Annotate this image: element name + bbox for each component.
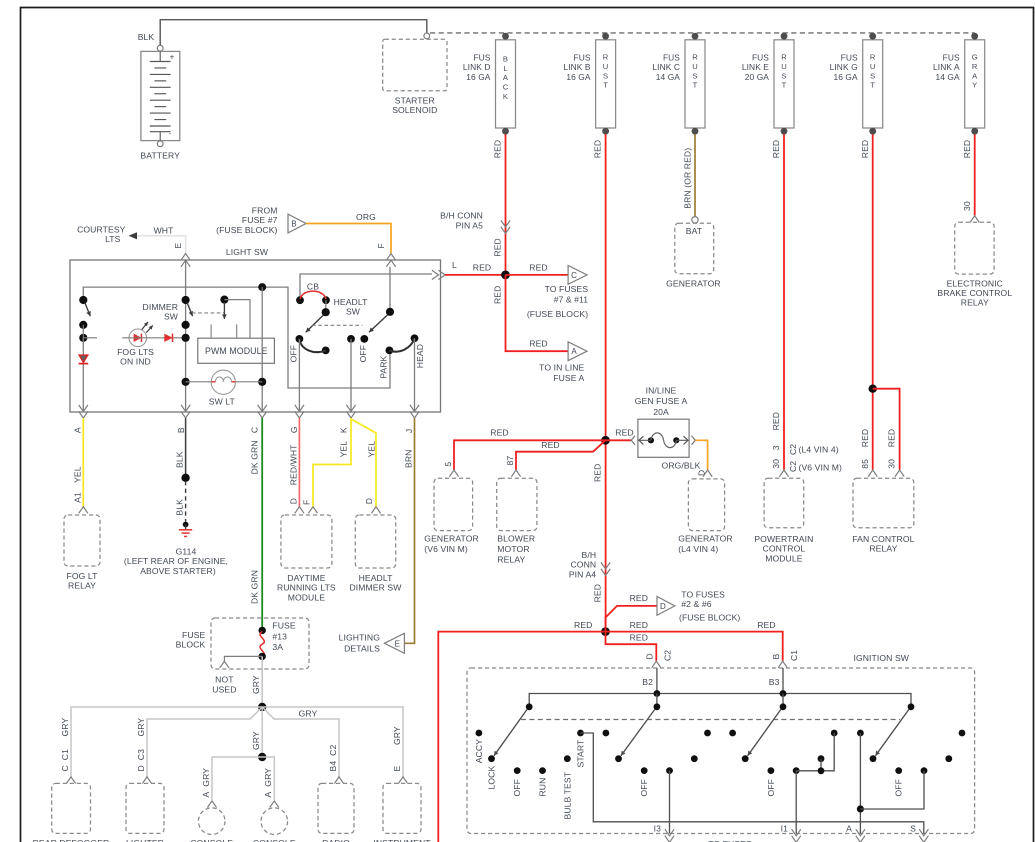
generator (L4 VIN 4) [703,470,712,477]
wire DK GRN to fuse block [261,418,263,630]
wire G column (OFF contact down) [298,339,300,412]
mechanical dashed link (rotary) [521,719,900,721]
blower motor relay [511,470,520,477]
svg-text:CONN: CONN [570,560,596,570]
svg-text:T: T [870,81,875,90]
wire to diode and A terminal [82,338,84,412]
ignition switch IGNITION SW box [467,668,975,834]
svg-text:3A: 3A [272,642,283,652]
wire RED from L to junction [445,274,506,276]
wire RED fuse link A to EBC relay [974,134,976,215]
svg-text:GENERATOR: GENERATOR [678,534,733,544]
svg-text:(FUSE BLOCK): (FUSE BLOCK) [527,309,588,319]
svg-text:B3: B3 [769,677,780,687]
wire GRY tier1 [71,707,403,777]
console lamp 2 [270,801,279,808]
svg-text:(L4 VIN 4): (L4 VIN 4) [678,544,718,554]
svg-text:A: A [972,71,978,80]
svg-text:14 GA: 14 GA [656,72,681,82]
console lamp 1 [207,801,216,808]
svg-text:BLK: BLK [175,451,185,468]
svg-text:RED: RED [962,140,972,158]
svg-text:PWM MODULE: PWM MODULE [205,346,268,356]
fan control relay [868,470,877,477]
svg-text:POWERTRAIN: POWERTRAIN [754,534,813,544]
wire RED to in-line fuse [606,439,632,441]
svg-text:L: L [503,64,507,73]
wire to NOT USED terminal [224,656,262,661]
headlt dimmer sw [371,507,380,514]
starter solenoid [383,39,447,90]
node GRY junction 2 [258,753,266,761]
svg-text:TO IN LINE: TO IN LINE [539,363,584,373]
svg-text:RED: RED [541,440,559,450]
node A branch [857,805,864,812]
svg-text:CONSOLE: CONSOLE [190,838,233,842]
wire RED to blower motor relay [516,440,606,470]
svg-text:S: S [910,824,916,834]
wire E/B column [185,260,187,412]
svg-text:E: E [392,766,402,772]
svg-text:A GRY: A GRY [263,768,273,798]
connector B/H CONN PIN A5 [501,220,510,227]
svg-text:IN/LINE: IN/LINE [646,385,677,395]
svg-text:20A: 20A [653,407,669,417]
svg-text:LTS: LTS [105,234,121,244]
svg-text:D: D [364,498,374,504]
svg-text:16 GA: 16 GA [566,72,591,82]
wire ignition feed rail [529,694,911,707]
svg-text:USED: USED [212,684,236,694]
wire RED branch to pin 30 [873,389,900,470]
wire GRY tier2 right [262,707,339,777]
svg-text:16 GA: 16 GA [466,72,491,82]
svg-text:NOT: NOT [215,675,234,685]
svg-text:U: U [781,62,787,71]
diode (series with LED) [164,334,172,342]
svg-text:SW: SW [164,312,179,322]
svg-text:R: R [972,62,978,71]
fuse F13 bottom node [259,653,266,660]
svg-text:ON IND: ON IND [120,357,151,367]
svg-text:PIN A4: PIN A4 [569,569,596,579]
svg-text:OFF: OFF [358,345,368,362]
svg-text:RADIO: RADIO [322,838,350,842]
svg-text:G114: G114 [176,546,197,556]
svg-text:R: R [603,53,609,62]
rear defogger box [66,777,75,784]
svg-text:SOLENOID: SOLENOID [392,105,437,115]
svg-text:FUSE #7: FUSE #7 [242,215,278,225]
lighter box [142,777,151,784]
svg-text:RED: RED [593,584,603,602]
svg-text:RED: RED [771,412,781,430]
node GRY junction [258,703,266,711]
svg-text:C2: C2 [788,444,798,455]
svg-text:(FUSE BLOCK): (FUSE BLOCK) [216,225,277,235]
svg-text:F: F [376,243,386,248]
wire internal bus [83,287,390,388]
svg-text:BRAKE CONTROL: BRAKE CONTROL [937,288,1012,298]
svg-text:RED: RED [473,262,491,272]
PWM control arrow [220,296,228,304]
dimmer switch contacts [182,321,190,329]
PWM module box [198,338,275,363]
contact arc PARK-HEAD [389,338,414,351]
svg-text:B: B [771,654,781,660]
svg-text:YEL: YEL [366,441,376,458]
fuse F13 top node [259,627,266,634]
svg-text:BRN (OR RED): BRN (OR RED) [682,148,692,209]
node ignition feed junction [601,627,610,636]
mechanical dashed link to PWM arrow [192,312,224,314]
svg-text:C2: C2 [788,461,798,472]
fuse #13 3A element [260,632,264,657]
wire BLK dashed [185,481,187,522]
svg-text:GRY: GRY [299,709,318,719]
svg-text:LINK B: LINK B [563,62,590,72]
wire RED to ignition C1 [606,632,783,661]
svg-text:GENERATOR: GENERATOR [424,534,479,544]
wire A output [859,733,861,834]
dimmer switch wiper arrow [187,303,192,316]
wire RED fuse link E to powertrain control module [783,134,785,470]
wire PWM feed [224,300,250,339]
wire GRY tier3 [212,757,274,800]
svg-text:LIGHT SW: LIGHT SW [226,247,269,257]
wire F column to wiper 2 [389,267,391,312]
node B2 rail junction [654,690,661,697]
dimmer switch pivot [182,296,190,304]
wire LED to dimmer column [122,337,185,339]
circuit breaker CB [296,296,304,304]
fuse link D box [496,40,516,128]
svg-text:RED: RED [493,238,503,256]
svg-text:J: J [404,429,414,433]
svg-text:#7 & #11: #7 & #11 [554,295,589,305]
svg-text:START: START [576,739,586,768]
svg-text:A: A [72,427,82,433]
svg-text:DAYTIME: DAYTIME [287,573,325,583]
wire RED to ignition C2 [606,632,657,661]
svg-text:RELAY: RELAY [961,298,989,308]
wire RED/WHT [298,418,300,507]
connector B/H CONN PIN A4 [601,562,610,569]
svg-text:(FUSE BLOCK): (FUSE BLOCK) [679,613,740,623]
svg-text:HEAD: HEAD [415,344,425,368]
svg-text:HEADLT: HEADLT [334,297,369,307]
headlt sw wiper 2 [386,308,394,316]
svg-text:20 GA: 20 GA [745,72,770,82]
svg-text:D C3: D C3 [136,749,146,772]
svg-text:RED: RED [860,429,870,447]
svg-text:ELECTRONIC: ELECTRONIC [947,279,1003,289]
svg-text:RED: RED [490,428,508,438]
ignition bank 1 contacts [476,730,483,737]
svg-text:R: R [781,53,787,62]
svg-text:GRY: GRY [251,675,261,694]
svg-text:LINK G: LINK G [830,62,858,72]
svg-text:FUS: FUS [943,53,960,63]
svg-text:ABOVE STARTER): ABOVE STARTER) [140,566,216,576]
svg-text:YEL: YEL [72,466,82,483]
svg-text:FUSE A: FUSE A [553,373,584,383]
triangle connector D to fuses 2 6 [657,597,675,616]
svg-text:I3: I3 [654,824,661,834]
wire I1 output [795,771,797,834]
fog lt relay [79,507,88,514]
ignition bank 3 wiper arrow [780,703,787,710]
wire GRY center [261,707,263,757]
svg-text:RED: RED [574,620,592,630]
svg-text:BLK: BLK [138,32,155,42]
fog switch contacts [79,321,87,329]
svg-text:A1: A1 [72,492,82,503]
svg-text:DIMMER: DIMMER [143,302,178,312]
svg-text:RUN: RUN [538,778,548,797]
svg-text:RED: RED [771,140,781,158]
electronic brake control relay [970,216,979,223]
svg-text:G: G [289,426,299,433]
wire B2 terminal to rail [656,668,658,694]
fuse link C box [685,40,705,128]
diode (fog lts feed) [79,355,88,362]
svg-text:U: U [870,62,876,71]
svg-text:16 GA: 16 GA [833,72,858,82]
svg-text:FROM: FROM [252,206,278,216]
svg-text:FUS: FUS [752,53,769,63]
svg-text:GEN FUSE A: GEN FUSE A [635,396,688,406]
wire J column (HEAD down) [414,338,416,412]
svg-text:S: S [603,71,608,80]
connector F into light sw [386,254,395,261]
fuse block box [211,618,309,669]
svg-text:BLOCK: BLOCK [176,640,206,650]
svg-text:B4 C2: B4 C2 [328,745,338,772]
svg-text:PIN A5: PIN A5 [456,220,483,230]
svg-text:C2: C2 [663,650,673,661]
svg-text:COURTESY: COURTESY [77,225,126,235]
LED indicator FOG LTS ON IND [129,329,147,347]
svg-text:TO FUSES: TO FUSES [681,589,725,599]
svg-text:A: A [503,73,509,82]
svg-text:RED: RED [630,593,648,603]
svg-text:DK GRN: DK GRN [249,440,259,474]
light switch LIGHT SW box [70,260,441,412]
svg-text:U: U [692,62,698,71]
svg-text:(L4 VIN 4): (L4 VIN 4) [799,444,839,454]
svg-text:B: B [176,427,186,433]
svg-text:FUSE: FUSE [182,630,205,640]
svg-text:LIGHTING: LIGHTING [339,633,381,643]
svg-text:D: D [288,498,298,504]
ignition bank 2 wiper arrow [654,703,661,710]
svg-text:G: G [972,53,978,62]
svg-text:LOCK: LOCK [487,766,497,790]
wire bank3 contact5 stub [820,759,822,771]
node fan feed junction [869,385,877,393]
svg-text:D: D [660,602,666,611]
wire START to S terminal [581,733,924,834]
svg-text:K: K [503,92,508,101]
node gen feed junction [601,436,610,445]
connector light sw bottom terminal x=299.4 [295,405,304,412]
wire ORG [306,224,391,254]
svg-text:SW LT: SW LT [209,397,236,407]
wire RED fuse link G to fan control relay [872,134,874,470]
svg-text:RED: RED [593,464,603,482]
connector light sw bottom terminal x=351 [346,405,355,412]
svg-text:B: B [503,55,508,64]
svg-text:RED: RED [529,339,547,349]
svg-text:RED: RED [529,262,547,272]
wire WHT to courtesy lts [137,236,186,253]
wire RED fuse link D to junction [505,134,507,275]
svg-text:RELAY: RELAY [68,581,96,591]
svg-text:BLOWER: BLOWER [497,534,535,544]
headlt contacts [296,335,304,343]
wire RED to left margin [438,632,605,842]
radio box [334,777,343,784]
wire RED to triangle C [506,274,569,276]
svg-text:FUS: FUS [663,53,680,63]
svg-text:LIGHTER: LIGHTER [126,838,164,842]
svg-text:E: E [395,639,400,648]
svg-text:ORG: ORG [356,212,376,222]
svg-text:GENERATOR: GENERATOR [666,278,721,288]
svg-text:L: L [452,260,457,270]
ignition bank 3 contacts [729,730,736,737]
svg-text:T: T [782,81,787,90]
node C tap on bus [258,283,266,291]
triangle connector A to in line fuse A [568,342,587,361]
svg-text:LINK A: LINK A [933,62,960,72]
svg-text:30: 30 [962,201,972,211]
wire C column [261,287,263,412]
svg-text:B: B [291,220,296,229]
wire bank3 contact6 to I1 [796,733,834,771]
svg-text:OFF: OFF [766,779,776,796]
svg-text:87: 87 [505,456,515,466]
wire BLK battery to starter solenoid [160,20,427,46]
svg-text:FUSE: FUSE [272,621,295,631]
svg-text:ACCY: ACCY [474,739,484,763]
fuse link E box [774,40,794,128]
in-line gen fuse A box [638,419,689,457]
svg-text:S: S [692,71,697,80]
svg-text:FUS: FUS [574,53,591,63]
svg-text:IGNITION SW: IGNITION SW [853,653,909,663]
svg-text:S: S [870,71,875,80]
svg-text:A GRY: A GRY [201,768,211,798]
svg-text:RED: RED [593,140,603,158]
wire K column [350,339,352,412]
wire RED down to triangle A [506,275,569,351]
fog switch wiper arrow [85,303,90,316]
svg-text:U: U [603,62,609,71]
wire A branch to bank4 contact4 [860,771,924,809]
svg-text:GRY: GRY [392,726,402,745]
svg-text:SW: SW [346,307,361,317]
wire GRY tier2 left [147,707,262,777]
daytime running lts module [295,507,304,514]
svg-text:RED: RED [887,429,897,447]
svg-text:TO FUSES: TO FUSES [545,284,589,294]
svg-text:LINK E: LINK E [742,62,769,72]
svg-text:(LEFT REAR OF ENGINE,: (LEFT REAR OF ENGINE, [124,556,228,566]
mechanical dashed link [312,324,362,326]
ignition bank 2 contacts [603,730,610,737]
svg-text:5: 5 [443,462,453,467]
svg-text:D: D [645,653,655,659]
svg-text:YEL: YEL [339,441,349,458]
svg-text:OFF: OFF [512,779,522,796]
wire BRN (OR RED) [694,134,696,216]
wire BRN to lighting details [404,418,414,643]
fuse element [648,437,654,443]
svg-text:S: S [781,71,786,80]
svg-text:85: 85 [860,459,870,469]
svg-text:3: 3 [771,445,781,450]
svg-text:BAT: BAT [686,226,703,236]
node main junction [501,271,510,280]
svg-text:14 GA: 14 GA [935,72,960,82]
svg-text:GRY: GRY [60,718,70,737]
wire RED fuse link B main feed [605,134,607,631]
svg-text:GRY: GRY [251,731,261,750]
svg-text:MODULE: MODULE [765,553,803,563]
svg-text:DETAILS: DETAILS [344,643,380,653]
svg-text:FUS: FUS [473,53,490,63]
svg-text:30: 30 [887,459,897,469]
starter solenoid terminal circle [424,33,430,39]
svg-text:BATTERY: BATTERY [140,151,180,161]
svg-text:GRY: GRY [136,718,146,737]
headlt sw wiper 1 [325,300,327,312]
svg-text:OFF: OFF [639,779,649,796]
svg-text:WHT: WHT [154,226,175,236]
svg-text:ORG/BLK: ORG/BLK [662,461,701,471]
svg-text:DK GRN: DK GRN [249,570,259,604]
svg-text:Y: Y [972,81,977,90]
svg-text:+: + [170,53,175,62]
svg-text:RED: RED [493,140,503,158]
svg-text:INSTRUMENT: INSTRUMENT [373,838,431,842]
svg-text:BLK: BLK [175,499,185,516]
lamp SW LT [182,378,190,386]
svg-text:FOG LTS: FOG LTS [117,347,154,357]
wire RED to triangle D [606,606,658,632]
fuse link B box [596,40,616,128]
svg-text:MODULE: MODULE [288,592,326,602]
powertrain control module [779,470,788,477]
node splice [181,474,189,482]
svg-text:K: K [339,427,349,433]
svg-text:RED: RED [757,620,775,630]
svg-text:MOTOR: MOTOR [497,544,529,554]
svg-text:RELAY: RELAY [497,554,525,564]
svg-text:E: E [173,243,183,249]
triangle connector C to fuses 7 11 [568,266,587,285]
svg-text:RELAY: RELAY [869,544,897,554]
svg-text:B/H CONN: B/H CONN [440,211,483,221]
wire YEL to headlt dimmer sw [351,419,376,507]
wire dashed feed bus [430,32,975,34]
fuse link G box [863,40,883,128]
svg-text:BULB TEST: BULB TEST [562,771,572,819]
instrument box [398,777,407,784]
svg-text:(V6 VIN M): (V6 VIN M) [424,544,468,554]
